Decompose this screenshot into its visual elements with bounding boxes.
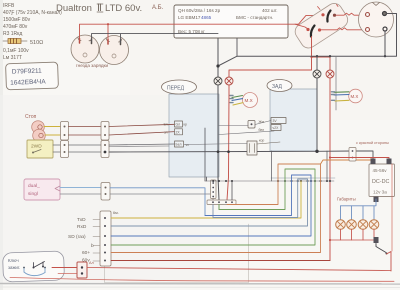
svg-text:4865: 4865 xyxy=(201,15,212,20)
wire blue phase rear motor xyxy=(334,94,349,97)
switch box 2WD xyxy=(27,140,53,158)
connector 2wd 2 xyxy=(101,141,109,158)
connector ignition red xyxy=(77,262,87,278)
connector brake 2 xyxy=(101,122,109,141)
battery info box xyxy=(174,5,288,38)
subtle paper shading xyxy=(0,0,3,290)
motor M.X rear xyxy=(349,89,363,103)
display cable labels xyxy=(68,217,94,264)
pin red 2 xyxy=(366,28,370,32)
wire red main feed: toggle2 down, to front fuse xyxy=(229,37,312,77)
DC-DC input pin 2 xyxy=(387,159,392,165)
wire label stubs left of connector xyxy=(93,220,100,262)
svg-text:2WD: 2WD xyxy=(31,144,42,150)
fuse F2 front red xyxy=(225,77,233,85)
wire red feed through front area to strip xyxy=(227,85,229,200)
key switch panel (rotated) xyxy=(292,0,351,51)
wire blue key loop xyxy=(24,272,45,276)
wire red key to connector xyxy=(52,267,77,269)
lamp L1 xyxy=(336,220,346,230)
wire dark from connector right pin down right edge xyxy=(387,14,397,57)
light switch xyxy=(376,244,386,253)
DC-DC output pin xyxy=(374,197,379,203)
svg-text:зл: зл xyxy=(164,131,168,135)
wire dark battery feed through front box to strip xyxy=(218,85,219,200)
svg-text:ТхD: ТхD xyxy=(77,217,86,223)
wire yellow phase rear motor xyxy=(335,99,349,102)
wire dark stub to rear motor area xyxy=(335,56,337,110)
display connector 6pin xyxy=(100,211,111,266)
wire dark to rear pin boxes xyxy=(219,121,274,135)
svg-text:гнезда зарядки: гнезда зарядки xyxy=(76,63,109,68)
svg-text:кор: кор xyxy=(259,139,264,143)
pin dark 1 xyxy=(383,12,387,16)
svg-text:SD (газ): SD (газ) xyxy=(68,234,86,240)
relay box kor rear xyxy=(247,141,257,155)
wire yellow brake 1 xyxy=(44,126,61,128)
front output strip connector xyxy=(207,200,236,205)
wire red rear feed 60v down to display wire xyxy=(329,78,331,261)
lamp L2 xyxy=(347,220,357,230)
wire gray dual mode xyxy=(60,193,101,195)
wire dark main negative bus y56 xyxy=(218,56,397,66)
svg-text:2Х: 2Х xyxy=(176,131,181,135)
wire stubs below strip pins xyxy=(218,205,220,210)
svg-text:LTD 60v.: LTD 60v. xyxy=(105,3,142,14)
svg-text:510Ω: 510Ω xyxy=(30,40,43,46)
connector 2wd 1 xyxy=(61,141,69,158)
svg-text:Ключ: Ключ xyxy=(8,258,19,263)
fuse F1 front dark xyxy=(214,77,222,85)
wire red from light switch down right edge xyxy=(387,252,392,272)
wire dark battery minus down xyxy=(217,39,219,78)
connector brake 1 xyxy=(61,122,69,141)
lamp L4 xyxy=(369,220,379,230)
charging socket 2 xyxy=(100,36,129,65)
wire gray 2wd pair to connector xyxy=(53,145,61,152)
wire dark branch to rear dark fuse xyxy=(316,56,318,70)
wire red ignition second bus xyxy=(10,278,394,282)
lamp bus end pin xyxy=(374,237,379,243)
svg-text:dual_: dual_ xyxy=(28,183,40,189)
svg-text:407Ƒ (75v 210A, N-канал): 407Ƒ (75v 210A, N-канал) xyxy=(3,10,62,16)
wire gray dual mode to strip xyxy=(110,194,213,200)
pin box Gn front xyxy=(175,121,183,127)
wire red feed to toggle2 from bus xyxy=(295,24,308,29)
svg-text:b: b xyxy=(91,243,94,249)
charging socket 1 xyxy=(71,35,99,63)
wire red ignition long bus xyxy=(87,268,391,271)
wire slate RxD S-route xyxy=(111,179,308,226)
notes: capacitor, regulator xyxy=(3,48,29,61)
wire dark rear box stub down xyxy=(272,151,328,181)
wire blue phase front motor xyxy=(232,99,243,101)
phase connector marks front xyxy=(230,96,233,103)
label ZAD (rear) xyxy=(267,80,292,92)
motor M.X front xyxy=(243,93,258,108)
switch box dual/singl xyxy=(24,179,60,200)
wire light blue dual mode xyxy=(60,187,101,189)
svg-text:12v 3а: 12v 3а xyxy=(373,190,387,195)
wire salmon 60+ S-route xyxy=(111,164,321,253)
wire green b S-route xyxy=(111,169,315,245)
wire yellow brake 2 xyxy=(45,134,61,136)
svg-text:45-56v: 45-56v xyxy=(373,168,388,173)
svg-text:А.Б.: А.Б. xyxy=(152,5,164,11)
svg-text:Стоп: Стоп xyxy=(25,114,37,120)
wire gray 2wd to Bel pin box xyxy=(109,144,175,145)
svg-text:402 шт.: 402 шт. xyxy=(262,8,278,13)
pin box rear input xyxy=(248,121,255,129)
svg-text:D79F9211: D79F9211 xyxy=(12,68,42,76)
node row under boxes xyxy=(205,180,334,182)
pin red 1 xyxy=(366,13,370,17)
fuse F3 rear dark xyxy=(313,70,321,78)
svg-text:1642EB4ЧА: 1642EB4ЧА xyxy=(10,78,46,86)
resistor 510 Ohm xyxy=(3,39,43,47)
svg-text:QH 60v/28a / 16s 2p: QH 60v/28a / 16s 2p xyxy=(178,8,221,13)
wire red to DC-DC input xyxy=(330,158,389,161)
wire red toggle1 to round connector xyxy=(336,13,366,15)
wire red toggle2 to round connector xyxy=(321,28,365,30)
label PERED (front) xyxy=(162,80,197,94)
brake lever sensor 2 xyxy=(33,129,46,142)
notes: MOSFET type xyxy=(3,3,62,37)
pin dark 2 xyxy=(383,27,387,31)
wire red lamp return stubs xyxy=(341,229,375,240)
title Dualtron II LTD 60v xyxy=(56,3,142,14)
wire dark from connector lower pin xyxy=(384,31,386,56)
svg-text:кр: кр xyxy=(184,123,187,127)
title underline strokes xyxy=(97,4,103,12)
connector dual mode xyxy=(101,183,110,201)
DC-DC input pin 1 xyxy=(371,159,376,165)
key switch contacts xyxy=(33,267,35,269)
wire orange front power to DC-DC xyxy=(321,159,372,165)
phase connector marks rear xyxy=(332,92,335,101)
svg-text:Sл.: Sл. xyxy=(164,123,169,127)
toggle contact 1 xyxy=(327,11,330,22)
round charging connector xyxy=(359,2,394,37)
wire blue SD S-route xyxy=(111,175,311,236)
lamp L3 xyxy=(358,220,368,230)
svg-text:БМС - стандартн.: БМС - стандартн. xyxy=(236,15,273,20)
svg-text:RхD: RхD xyxy=(77,224,87,230)
pin box 2X rear xyxy=(271,125,281,131)
svg-text:R3 1Rкд: R3 1Rкд xyxy=(3,31,22,37)
wire dark long bus along box bottoms to DC-DC xyxy=(109,151,373,159)
wire yellow phase front motor xyxy=(233,103,243,105)
svg-text:LG EBM17: LG EBM17 xyxy=(178,15,201,20)
pin box Bel front xyxy=(175,141,184,147)
pin box 3V rear xyxy=(271,118,286,124)
wire red charge bus from sockets to key switch xyxy=(80,15,322,42)
svg-text:Ал: Ал xyxy=(89,261,94,265)
svg-text:470мF 80v: 470мF 80v xyxy=(3,24,28,30)
wire red lamp return bus xyxy=(330,239,376,241)
rear strip bar xyxy=(271,177,335,179)
svg-text:с красной стороны: с красной стороны xyxy=(356,141,389,145)
wire brown brake into controller pin boxes xyxy=(109,124,175,135)
wire green phase rear motor xyxy=(334,91,349,94)
rear controller box xyxy=(270,89,317,151)
node red junction on charge bus xyxy=(107,23,109,25)
svg-text:М.Х: М.Х xyxy=(351,94,359,99)
wire red branch to rear fuse xyxy=(312,57,331,70)
brake lever sensor 1 xyxy=(32,121,45,134)
wire dark rear feed into rear box xyxy=(316,78,318,151)
paper bottom edge shadow xyxy=(0,283,400,286)
DC-DC converter box xyxy=(369,164,395,197)
lamp stub wires blue xyxy=(341,206,375,220)
svg-text:60+: 60+ xyxy=(82,250,90,256)
svg-text:6м.: 6м. xyxy=(113,211,119,215)
svg-text:ПЕРЕД: ПЕРЕД xyxy=(167,86,185,92)
ignition key box xyxy=(3,251,65,282)
svg-text:зажиг.: зажиг. xyxy=(8,265,20,270)
svg-text:Бел: Бел xyxy=(176,143,182,147)
svg-text:1500мF 80v: 1500мF 80v xyxy=(3,17,31,23)
toggle contact 2 xyxy=(311,26,315,37)
wire green phase front motor xyxy=(232,96,243,98)
svg-text:ЗАД: ЗАД xyxy=(272,84,283,90)
wire dark charge return bus xyxy=(92,34,219,43)
svg-text:IRFB: IRFB xyxy=(3,3,15,9)
wire red right edge from DC-DC down xyxy=(391,164,393,251)
wire dark mid bus through boxes xyxy=(109,144,247,147)
svg-text:0,1мF 100v: 0,1мF 100v xyxy=(3,48,29,54)
svg-text:vv: vv xyxy=(186,143,190,147)
pin box 2X front xyxy=(175,129,183,135)
svg-text:3V: 3V xyxy=(273,119,278,123)
controller ID box D79F9211 xyxy=(6,62,59,90)
wire yellow TxD S-route xyxy=(111,181,301,218)
wire dark strip feed stub xyxy=(231,181,233,200)
svg-text:ч2Х: ч2Х xyxy=(273,126,280,130)
connector 4pin under front box xyxy=(211,180,217,199)
svg-text:М.Х: М.Х xyxy=(245,98,253,103)
svg-text:singl: singl xyxy=(28,191,38,197)
front controller box xyxy=(169,94,219,177)
wire gray 2wd to connector 2 xyxy=(69,145,102,152)
connector red side xyxy=(349,148,356,162)
faint deck outline box xyxy=(105,222,249,283)
fuse F4 rear red xyxy=(326,70,334,78)
wire blue lamp bus xyxy=(341,199,377,206)
wire dark front box bottom stubs xyxy=(205,128,207,181)
wire blue dual mode to strip area xyxy=(110,188,205,216)
wire brown brake pair to connector 2 xyxy=(69,127,102,136)
svg-text:DC-DC: DC-DC xyxy=(372,179,389,185)
wire dark red 60v to rear fuse vertical xyxy=(111,260,330,262)
svg-text:Gл: Gл xyxy=(176,123,181,127)
svg-text:Габариты: Габариты xyxy=(337,197,356,202)
svg-text:Lм 317T: Lм 317T xyxy=(3,55,22,61)
key switch scribble marks xyxy=(318,5,339,10)
